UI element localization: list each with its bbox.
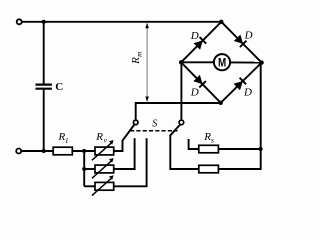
node junction rheostat bus middle [82, 167, 86, 171]
switch S right pivot [179, 120, 184, 125]
svg-text:D: D [244, 30, 253, 42]
wire Rs2 to right bus corner [218, 149, 260, 169]
bridge edge bottom-left [181, 62, 221, 103]
rheostat section 2 [95, 165, 114, 173]
resistor Rs section 2 [199, 165, 219, 173]
wire bus to rheostat 2 [84, 168, 95, 170]
wire capacitor branch lower [43, 89, 45, 151]
wire rheostat1 to switch contact 1 [114, 140, 123, 151]
node junction after R1 [82, 149, 86, 153]
svg-text:m: m [134, 51, 143, 57]
wire contact stub to Rs section 1 [189, 139, 199, 149]
switch S left pivot [133, 120, 138, 125]
capacitor C [36, 83, 52, 85]
svg-text:1: 1 [65, 136, 69, 145]
rheostat section 3 [95, 182, 114, 190]
terminal input bottom-left [16, 149, 21, 154]
svg-text:D: D [190, 86, 199, 98]
wire capacitor branch upper [43, 22, 45, 85]
wire right bus vertical [260, 63, 262, 149]
label Rm (rotated) [130, 51, 144, 65]
svg-text:D: D [190, 30, 199, 42]
wire bottom-left to R1 [21, 150, 53, 152]
wire bus to rheostat 3 [84, 185, 95, 187]
wire rheostat2 to contact stub 2 [114, 138, 135, 169]
diode D bottom-left [199, 81, 206, 87]
bridge edge top-right [221, 22, 261, 63]
diode D bottom-right [240, 78, 247, 85]
node junction right bus [259, 147, 263, 151]
switch S gang dashed link [130, 130, 178, 132]
svg-text:s: s [211, 135, 214, 144]
rheostat Rv section 1 [95, 147, 114, 155]
wire top horizontal [22, 21, 222, 23]
resistor Rs section 1 [199, 145, 219, 153]
bridge edge bottom-right [221, 63, 262, 103]
terminal input top-left [17, 19, 22, 24]
wire bridge left vertex to motor [181, 61, 214, 63]
wire rheostat bus vertical [83, 151, 85, 186]
svg-text:M: M [218, 55, 226, 69]
svg-text:C: C [55, 81, 63, 93]
wire bridge bottom to left switch [136, 103, 221, 121]
wire right arm to Rs section 2 [170, 135, 199, 169]
motor M [214, 54, 230, 70]
svg-text:S: S [152, 118, 157, 129]
svg-text:v: v [104, 136, 108, 145]
bridge edge top-left [181, 22, 221, 63]
svg-text:D: D [243, 87, 252, 99]
diode D top-right [240, 41, 247, 47]
resistor R1 [53, 147, 72, 155]
node bridge top vertex [219, 20, 223, 24]
wire rheostat3 to contact stub 3 [114, 138, 147, 186]
switch S right arm [170, 125, 180, 136]
node junction top (capacitor tap) [42, 20, 46, 24]
svg-text:R: R [203, 131, 211, 143]
wire Rs1 to right bus [218, 148, 260, 150]
switch S left arm [123, 125, 135, 141]
node junction bottom of capacitor branch [42, 149, 46, 153]
diode D top-left [200, 37, 207, 44]
dimension line Rm [146, 24, 148, 101]
node bridge bottom vertex [219, 101, 223, 105]
svg-text:R: R [130, 57, 142, 65]
svg-text:R: R [95, 131, 103, 143]
node bridge left vertex [179, 60, 183, 64]
wire motor to bridge right vertex [230, 61, 262, 63]
wire R1 to junction [72, 150, 95, 152]
wire bridge left vertex to right switch [180, 62, 182, 120]
node bridge right vertex [259, 60, 263, 64]
